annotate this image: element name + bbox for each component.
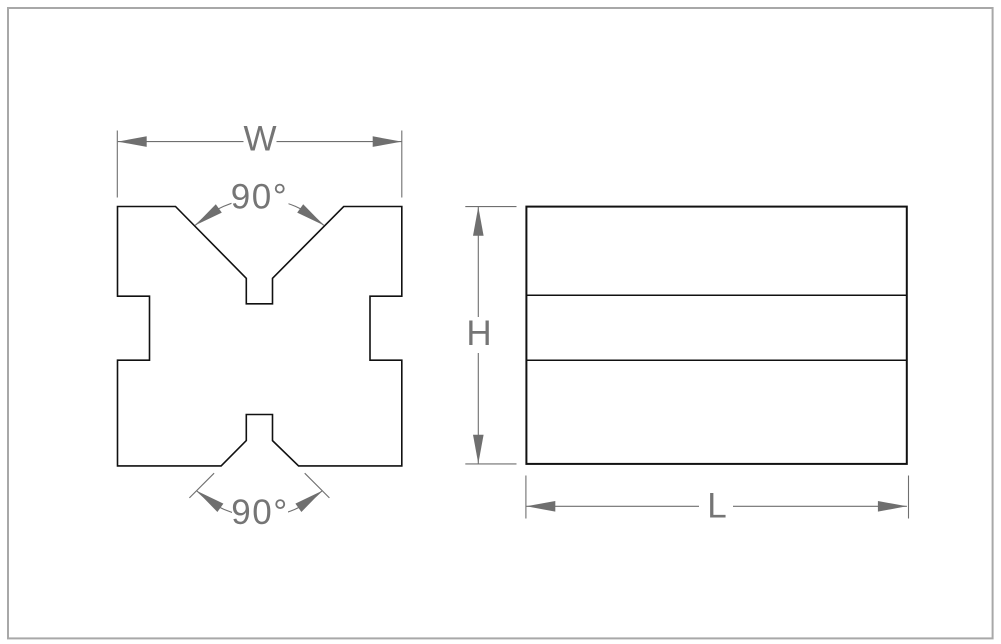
- side view groove line lower: [526, 359, 906, 361]
- dimension L: [526, 476, 909, 526]
- svg-text:90°: 90°: [231, 178, 288, 217]
- side view rectangle: [526, 207, 906, 464]
- angular dimension 90 top: [195, 178, 323, 226]
- svg-text:H: H: [466, 314, 491, 353]
- svg-text:W: W: [243, 120, 276, 159]
- front view outline (V-block): [118, 207, 402, 466]
- dimension W: [117, 120, 402, 198]
- angular dimension 90 bottom: [189, 473, 329, 532]
- svg-text:L: L: [707, 487, 726, 526]
- dimension H: [465, 207, 517, 464]
- side view groove line upper: [526, 294, 906, 296]
- svg-text:90°: 90°: [231, 493, 288, 532]
